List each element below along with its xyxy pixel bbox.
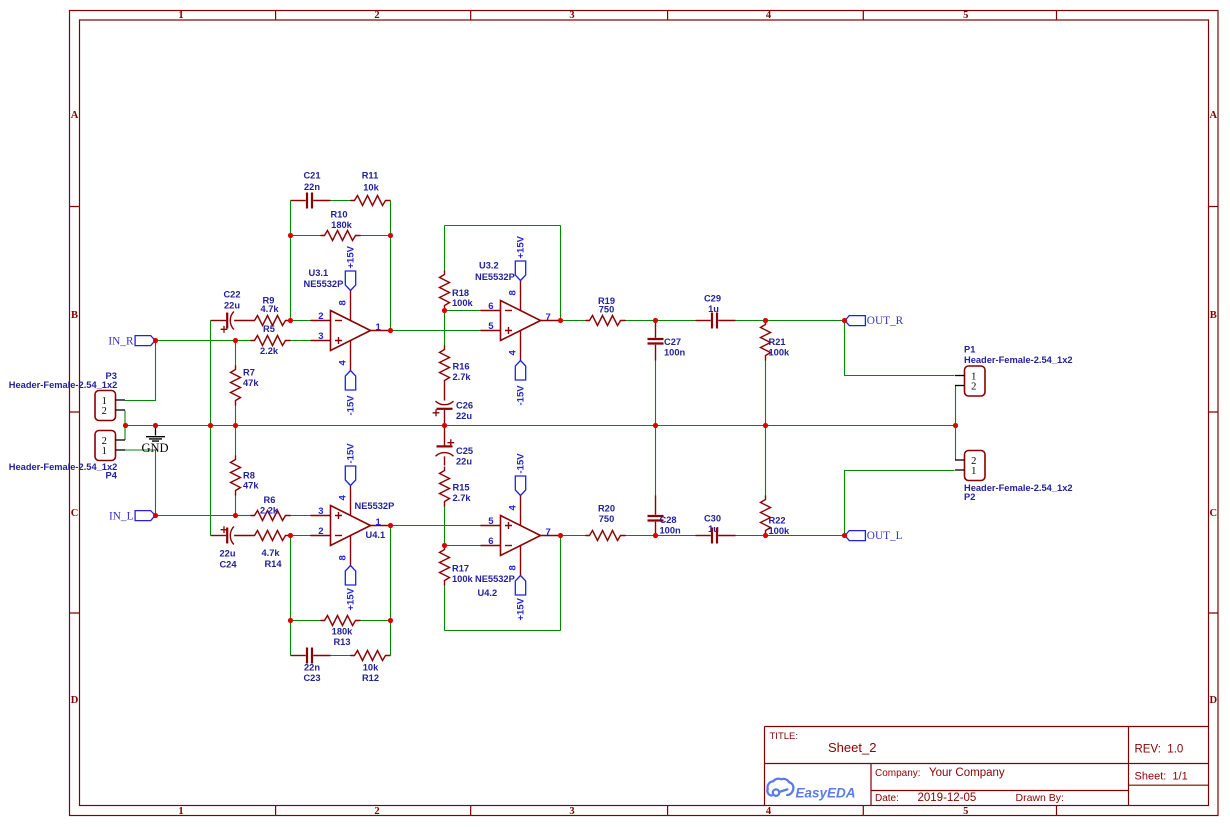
svg-text:R10: R10 (330, 210, 347, 220)
svg-text:Header-Female-2.54_1x2: Header-Female-2.54_1x2 (964, 355, 1073, 365)
resistor R9 4.7k (251, 296, 291, 326)
junction at 290,320 (288, 318, 293, 323)
wire C23 to R12 (331, 655, 351, 657)
power flag -15V (515, 361, 526, 406)
svg-text:47k: 47k (243, 378, 259, 388)
svg-text:5: 5 (963, 806, 968, 817)
wire feedback to R18 (444, 226, 446, 271)
svg-text:Drawn By:: Drawn By: (1016, 792, 1064, 804)
wire U3.2 feedback top (445, 225, 561, 227)
junction at 390,330 (388, 328, 393, 333)
svg-text:22n: 22n (304, 663, 320, 673)
svg-text:22u: 22u (219, 549, 235, 559)
svg-text:R5: R5 (263, 324, 275, 334)
junction at 235,340 (233, 338, 238, 343)
svg-text:6: 6 (488, 536, 493, 547)
wire U4.1 out to U4.2 pin5 (391, 525, 481, 527)
wire IN_R net (156, 340, 236, 342)
capacitor C26 22u (polarized) (433, 386, 473, 426)
wire C29 to OUT_R (736, 320, 845, 322)
frame column labels (178, 10, 968, 817)
wire R9 to U3.1 pin2 (291, 320, 311, 322)
svg-text:-15V: -15V (346, 395, 357, 416)
svg-text:47k: 47k (243, 481, 259, 491)
wire R21 to rail (765, 361, 767, 426)
svg-text:R8: R8 (243, 471, 255, 481)
op-amp U3.1 NE5532P (304, 268, 391, 371)
wire rail to R22 (765, 426, 767, 496)
junction at 155,425 (153, 423, 158, 428)
capacitor C21 22n (291, 171, 331, 209)
wire IN_R to P3 pin1 (125, 341, 156, 401)
svg-text:IN_R: IN_R (108, 336, 134, 348)
wire R6 to U4.1 pin3 (291, 515, 311, 517)
svg-text:R13: R13 (333, 637, 350, 647)
svg-text:8: 8 (508, 565, 519, 570)
wire IN_R to R5 (236, 340, 251, 342)
svg-text:4: 4 (338, 360, 349, 366)
svg-text:22u: 22u (456, 411, 472, 421)
wire C21 to R11 (331, 200, 351, 202)
junction at 655,320 (653, 318, 658, 323)
junction at 235,515 (233, 513, 238, 518)
wire U3.1 out to U3.2 pin5 (391, 330, 481, 332)
svg-text:2.7k: 2.7k (453, 493, 472, 503)
svg-text:22u: 22u (456, 457, 472, 467)
resistor R5 2.2k (251, 324, 291, 356)
svg-text:C25: C25 (456, 446, 473, 456)
svg-text:5: 5 (488, 321, 494, 332)
power flag +15V (345, 245, 356, 290)
junction at 560,535 (558, 533, 563, 538)
svg-text:3: 3 (318, 506, 323, 517)
svg-text:C26: C26 (456, 401, 473, 411)
svg-text:R6: R6 (264, 495, 276, 505)
svg-text:P1: P1 (964, 345, 975, 355)
junction at 444,310 (442, 308, 447, 313)
junction at 290,535 (288, 533, 293, 538)
junction at 235,425 (233, 423, 238, 428)
svg-text:TITLE:: TITLE: (770, 731, 799, 742)
ground symbol GND (141, 426, 168, 456)
wire U3.2 out to R19 (561, 320, 586, 322)
resistor R22 100k (761, 496, 791, 537)
wire P3 pin2 to rail (124, 411, 126, 426)
svg-text:6: 6 (488, 301, 493, 312)
wire IN_L net (156, 515, 236, 517)
svg-text:GND: GND (141, 441, 168, 455)
junction at 765,425 (763, 423, 768, 428)
wire R7 to GND rail (235, 406, 237, 426)
svg-text:C21: C21 (303, 171, 320, 181)
wire C22/C24 left column (210, 321, 212, 536)
junction at 155,515 (153, 513, 158, 518)
svg-text:4: 4 (508, 505, 519, 511)
svg-text:D: D (1210, 695, 1218, 706)
junction at 390,525 (388, 523, 393, 528)
svg-text:U4.1: U4.1 (366, 530, 386, 540)
svg-text:NE5532P: NE5532P (304, 279, 344, 289)
svg-text:22n: 22n (304, 182, 320, 192)
wire R15 node to U4.2 pin6 (445, 545, 481, 547)
svg-text:C: C (1210, 508, 1218, 519)
power flag -15V (345, 371, 356, 416)
connector P1 Header-Female-2.54_1x2 (955, 345, 1073, 397)
wire C27 to rail (655, 361, 657, 426)
wire R20 to C30 (626, 535, 696, 537)
svg-text:C23: C23 (303, 673, 320, 683)
svg-text:NE5532P: NE5532P (475, 574, 515, 584)
svg-text:750: 750 (599, 514, 615, 524)
svg-text:+15V: +15V (346, 245, 357, 268)
svg-text:REV: 1.0: REV: 1.0 (1135, 744, 1184, 756)
capacitor C22 22u (polarized) (211, 290, 251, 333)
svg-text:C29: C29 (704, 294, 721, 304)
svg-text:+15V: +15V (516, 235, 527, 258)
junction at 390,235 (388, 233, 393, 238)
resistor R6 2.2k (251, 495, 291, 521)
resistor R7 47k (231, 366, 260, 406)
svg-text:C22: C22 (223, 290, 240, 300)
connector P4 Header-Female-2.54_1x2 (9, 431, 125, 481)
connector P3 Header-Female-2.54_1x2 (9, 371, 125, 421)
wire R10 right (361, 235, 391, 237)
svg-text:NE5532P: NE5532P (355, 501, 395, 511)
wire OUT_L to P2 pin1 (845, 471, 955, 536)
wire U3.1 feedback right vertical (390, 201, 392, 331)
svg-text:1: 1 (971, 466, 976, 477)
svg-text:R20: R20 (598, 504, 615, 514)
resistor R11 10k (351, 171, 391, 206)
svg-text:Header-Female-2.54_1x2: Header-Female-2.54_1x2 (964, 483, 1073, 493)
wire rail to P4 pin2 (124, 426, 126, 441)
svg-text:10k: 10k (363, 663, 379, 673)
resistor R12 10k (351, 651, 391, 684)
net flag OUT_L (845, 530, 903, 542)
wire U4.2 out to R20 (561, 535, 586, 537)
resistor R18 100k (440, 271, 474, 311)
svg-text:1u: 1u (708, 304, 719, 314)
svg-text:4: 4 (766, 806, 772, 817)
power flag -15V (515, 453, 526, 496)
wire U4.1 feedback left vertical (290, 536, 292, 656)
power flag +15V (515, 576, 526, 621)
power flag -15V (345, 443, 356, 486)
svg-text:C24: C24 (219, 560, 237, 570)
svg-text:Company:: Company: (875, 768, 923, 779)
svg-text:1: 1 (178, 806, 183, 817)
svg-text:B: B (71, 310, 78, 321)
svg-text:2: 2 (374, 806, 379, 817)
capacitor C29 1u (696, 294, 736, 329)
svg-text:C27: C27 (664, 337, 681, 347)
resistor R20 750 (586, 504, 626, 541)
net flag IN_R (108, 336, 155, 348)
wire feedback to U3.2 out (560, 226, 562, 321)
svg-text:R14: R14 (264, 559, 282, 569)
svg-text:R11: R11 (362, 171, 379, 181)
wire C30 to OUT_L (736, 535, 845, 537)
svg-text:C30: C30 (704, 514, 721, 524)
frame row labels (71, 110, 1218, 706)
svg-text:R15: R15 (453, 483, 470, 493)
wire R17 to feedback (444, 586, 446, 631)
capacitor C28 100n (648, 496, 682, 536)
capacitor C24 22u (polarized) (211, 526, 251, 569)
svg-text:22u: 22u (224, 301, 240, 311)
svg-text:1: 1 (376, 322, 382, 333)
schematic content group (9, 171, 1073, 684)
op-amp U4.1 NE5532P (311, 486, 395, 566)
wire feedback to U4.2 out (560, 536, 562, 631)
svg-text:Your Company: Your Company (929, 767, 1005, 779)
svg-text:2: 2 (374, 10, 379, 21)
svg-text:750: 750 (599, 305, 615, 315)
junction at 444,425 (442, 423, 447, 428)
wire rail to C28 (655, 426, 657, 496)
junction at 290,235 (288, 233, 293, 238)
svg-text:U4.2: U4.2 (478, 588, 498, 598)
svg-text:2.2k: 2.2k (260, 346, 279, 356)
svg-text:U3.2: U3.2 (479, 261, 499, 271)
wire U4.2 feedback bottom (445, 630, 561, 632)
junction at 210,425 (208, 423, 213, 428)
svg-text:U3.1: U3.1 (309, 268, 329, 278)
svg-text:R16: R16 (453, 362, 470, 372)
svg-text:5: 5 (963, 10, 968, 21)
resistor R17 100k (440, 546, 474, 586)
junction at 125,425 (123, 423, 128, 428)
junction at 155,340 (153, 338, 158, 343)
svg-text:Header-Female-2.54_1x2: Header-Female-2.54_1x2 (9, 462, 118, 472)
wire rail to R8 (235, 426, 237, 456)
junction at 765,320 (763, 318, 768, 323)
svg-text:IN_L: IN_L (109, 511, 134, 523)
wire R14 to U4.1 pin2 (291, 535, 311, 537)
junction at 655,535 (653, 533, 658, 538)
svg-text:7: 7 (546, 312, 551, 323)
svg-text:8: 8 (338, 300, 349, 305)
svg-text:2: 2 (318, 311, 323, 322)
svg-text:-15V: -15V (516, 385, 527, 406)
junction at 290,620 (288, 618, 293, 623)
wire R8 to IN_L node (235, 496, 237, 516)
wire R15 to node (444, 507, 446, 546)
wire rail to P2 pin2 (955, 426, 957, 461)
svg-text:C28: C28 (660, 515, 677, 525)
wire to R10 left (291, 235, 321, 237)
resistor R14 4.7k (251, 531, 291, 570)
svg-text:4.7k: 4.7k (260, 304, 279, 314)
power flag +15V (345, 566, 356, 611)
wire IN_R node to R7 (235, 341, 237, 366)
capacitor C23 22n (291, 648, 331, 684)
svg-text:1u: 1u (708, 524, 719, 534)
wire GND rail (126, 425, 956, 427)
svg-text:R21: R21 (769, 337, 786, 347)
wire U4.1 feedback right vertical (390, 526, 392, 656)
svg-text:2: 2 (102, 406, 107, 417)
net flag IN_L (109, 511, 155, 523)
svg-text:2: 2 (971, 382, 976, 393)
resistor R16 2.7k (440, 346, 472, 386)
junction at 444,545 (442, 543, 447, 548)
resistor R13 180k (321, 616, 361, 648)
svg-text:180k: 180k (331, 220, 353, 230)
svg-text:P4: P4 (106, 471, 118, 481)
junction at 844,320 (842, 318, 847, 323)
svg-text:Header-Female-2.54_1x2: Header-Female-2.54_1x2 (9, 380, 118, 390)
svg-text:4.7k: 4.7k (261, 548, 280, 558)
op-amp U4.2 NE5532P (475, 496, 561, 599)
svg-text:8: 8 (508, 290, 519, 295)
net flag OUT_R (845, 315, 904, 327)
svg-text:100n: 100n (664, 348, 686, 358)
wire R18 node to U3.2 pin6 (445, 310, 481, 312)
resistor R19 750 (586, 296, 626, 326)
junction at 655,425 (653, 423, 658, 428)
connector P2 Header-Female-2.54_1x2 (955, 451, 1073, 503)
svg-text:2: 2 (318, 526, 323, 537)
wire P4 pin1 to IN_L (125, 450, 156, 516)
svg-text:-15V: -15V (516, 453, 527, 474)
junction at 390,620 (388, 618, 393, 623)
op-amp U3.2 NE5532P (475, 261, 561, 361)
svg-text:R7: R7 (243, 368, 255, 378)
svg-text:+15V: +15V (516, 597, 527, 620)
svg-text:2019-12-05: 2019-12-05 (918, 792, 977, 804)
power flag +15V (515, 235, 526, 280)
wire R18 node to R16 (444, 311, 446, 346)
svg-text:EasyEDA: EasyEDA (796, 785, 856, 800)
wire OUT_R to P1 pin1 (845, 321, 955, 376)
svg-text:5: 5 (488, 516, 494, 527)
capacitor C27 100n (648, 321, 686, 361)
junction at 844,535 (842, 533, 847, 538)
resistor R21 100k (761, 321, 791, 361)
EasyEDA logo (767, 779, 855, 801)
svg-text:180k: 180k (332, 627, 354, 637)
wire P1 pin2 to rail (955, 386, 957, 426)
wire R19 to C29 (626, 320, 696, 322)
resistor R15 2.7k (440, 467, 472, 507)
svg-text:7: 7 (546, 527, 551, 538)
svg-text:R22: R22 (769, 516, 786, 526)
svg-text:C: C (71, 508, 79, 519)
svg-text:1: 1 (376, 517, 382, 528)
svg-text:OUT_L: OUT_L (867, 530, 903, 542)
svg-text:100k: 100k (769, 348, 791, 358)
svg-text:R17: R17 (452, 564, 469, 574)
svg-text:100k: 100k (452, 298, 474, 308)
junction at 560,320 (558, 318, 563, 323)
resistor R10 180k (321, 210, 361, 241)
svg-text:Date:: Date: (875, 793, 899, 804)
svg-text:+15V: +15V (346, 587, 357, 610)
svg-text:10k: 10k (363, 183, 379, 193)
capacitor C25 22u (polarized) (436, 426, 474, 467)
wire U3.1 feedback left vertical (290, 201, 292, 321)
junction at 955,425 (953, 423, 958, 428)
svg-text:100n: 100n (660, 526, 682, 536)
svg-text:4: 4 (338, 495, 349, 501)
svg-text:A: A (71, 110, 79, 121)
junction at 765,535 (763, 533, 768, 538)
svg-text:4: 4 (508, 350, 519, 356)
svg-text:2.2k: 2.2k (260, 506, 279, 516)
svg-text:P2: P2 (964, 492, 975, 502)
svg-text:-15V: -15V (346, 443, 357, 464)
svg-text:8: 8 (338, 555, 349, 560)
svg-text:B: B (1210, 310, 1217, 321)
svg-text:Sheet_2: Sheet_2 (828, 740, 876, 755)
svg-text:100k: 100k (769, 526, 791, 536)
svg-text:3: 3 (318, 331, 323, 342)
svg-text:4: 4 (766, 10, 772, 21)
svg-text:R18: R18 (452, 288, 469, 298)
title block (765, 727, 1210, 806)
svg-text:D: D (71, 695, 79, 706)
svg-text:100k: 100k (452, 574, 474, 584)
wire to R13 left (291, 620, 321, 622)
svg-text:3: 3 (569, 806, 574, 817)
svg-text:1: 1 (178, 10, 183, 21)
svg-text:NE5532P: NE5532P (475, 272, 515, 282)
svg-text:3: 3 (569, 10, 574, 21)
wire R5 to U3.1 pin3 (291, 340, 311, 342)
wire IN_L to R6 (236, 515, 251, 517)
svg-text:Sheet: 1/1: Sheet: 1/1 (1135, 771, 1188, 783)
svg-text:1: 1 (102, 446, 107, 457)
wire R13 right (361, 620, 391, 622)
svg-text:2.7k: 2.7k (453, 372, 472, 382)
svg-text:OUT_R: OUT_R (867, 315, 904, 327)
capacitor C30 1u (696, 514, 736, 544)
resistor R8 47k (231, 456, 260, 496)
svg-text:R12: R12 (362, 673, 379, 683)
svg-text:A: A (1210, 110, 1218, 121)
